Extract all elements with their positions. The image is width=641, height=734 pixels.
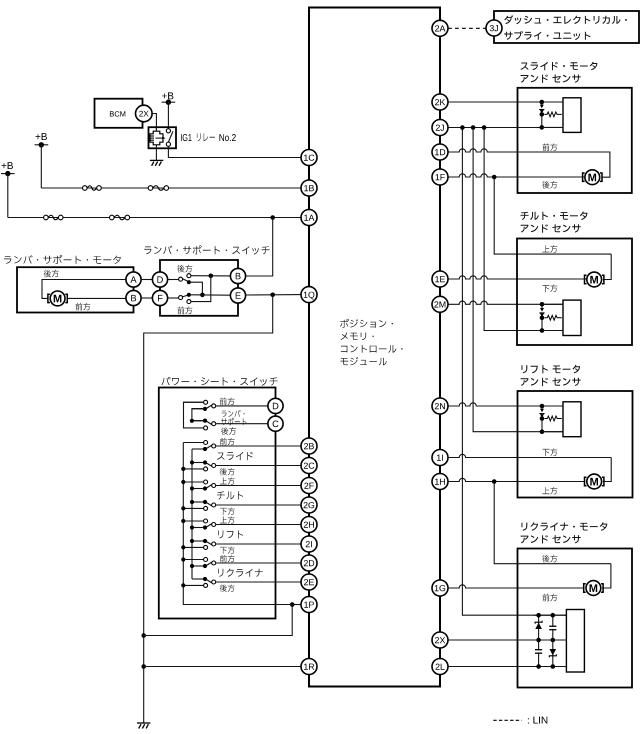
box lumbar support switch — [160, 260, 238, 316]
motor M3 tilt — [587, 272, 602, 287]
diode D1 zener up — [538, 615, 540, 666]
node junction B row — [209, 274, 214, 279]
wire relay coil to ground — [155, 148, 157, 160]
label 上方 — [220, 516, 235, 523]
wire 1D row to slide front — [448, 149, 610, 152]
label 下方 — [220, 547, 235, 554]
terminal D lumbar switch — [152, 272, 167, 287]
module pin 2X — [432, 632, 448, 648]
box power seat switch — [159, 388, 276, 619]
wire bus b5 1H to recliner rear — [494, 482, 611, 564]
wire D selected contact to E bus — [189, 282, 202, 295]
sensor rect recliner — [566, 610, 584, 673]
label module name — [340, 319, 393, 328]
ground main — [137, 722, 150, 724]
label front contact — [177, 307, 192, 315]
diode D2 zener down — [550, 649, 557, 655]
terminal E lumbar switch — [230, 288, 245, 303]
wire bus b1 2J to recliner sensor — [462, 128, 566, 616]
capacitor C2 — [552, 615, 554, 666]
fuse F1 on 1B row — [83, 186, 88, 191]
label group リフト — [218, 530, 243, 538]
wire B to F — [141, 297, 152, 299]
label lift motor and sensor title2 — [521, 378, 581, 386]
module pin 2J — [432, 120, 448, 136]
module pin 1D — [432, 144, 448, 160]
sensor R3 lift position — [541, 406, 543, 409]
label front zenpo B — [75, 303, 90, 311]
node junction ground bus 1R branch — [141, 664, 146, 669]
module pin 2M — [432, 296, 448, 312]
wire terminal B to motor — [68, 297, 126, 299]
node junction E row — [200, 293, 205, 298]
switch SW lumbar-up D — [183, 401, 203, 403]
ground relay — [150, 159, 163, 161]
node lumbar selected bus junction — [190, 419, 194, 423]
wire 2J row to slide sensor — [448, 127, 563, 129]
label tilt motor and sensor title1 — [520, 212, 587, 221]
label power seat switch title — [161, 377, 277, 386]
module pin 1H — [432, 474, 448, 490]
wire 2K row to slide sensor — [448, 101, 563, 103]
wire slide front to motor — [518, 152, 610, 177]
label recliner motor and sensor title2 — [521, 535, 581, 543]
wire bus b3 2J to tilt sensor — [484, 128, 563, 331]
wire 1G row to recliner front — [448, 585, 584, 588]
wire recliner sensor mid row — [518, 639, 567, 641]
wire bus b2 2J to lift sensor — [473, 128, 563, 432]
label lumbar support switch title — [144, 245, 269, 254]
wire 1B row with fuses — [41, 187, 301, 189]
wire E to pin 1Q — [246, 294, 301, 296]
box recliner motor and sensor — [518, 549, 633, 688]
module pin 2H — [301, 517, 317, 533]
terminal C power seat switch — [268, 416, 283, 431]
wire 1I row to lift down — [448, 454, 611, 457]
motor M1 lumbar — [50, 291, 65, 306]
module pin 1A — [301, 210, 317, 226]
wire +B1 to 1A row — [7, 174, 9, 218]
module pin 1I — [432, 450, 448, 466]
box BCM — [95, 99, 143, 128]
module pin 2L — [432, 659, 448, 675]
label IG1 relay No.2 — [181, 134, 192, 141]
switch SW-F lumbar — [168, 297, 179, 299]
node 1H b5 junction — [492, 479, 497, 484]
wire lumbar open-contacts bus — [184, 402, 204, 428]
switch SW チルト down row — [183, 507, 203, 509]
module pin 1Q — [301, 287, 317, 303]
label 前方 — [220, 555, 235, 563]
label recliner motor and sensor title1 — [521, 522, 607, 531]
node 1F b4 junction — [492, 175, 497, 180]
box lift motor and sensor — [518, 391, 633, 498]
label rear slide — [542, 181, 557, 189]
fuse F4 on 1A row — [110, 215, 115, 220]
box slide motor and sensor — [518, 88, 632, 193]
label dash electrical supply unit line1 — [504, 15, 627, 24]
wire 1Q junction to ground bus — [144, 295, 273, 723]
module pin 2K — [432, 94, 448, 110]
node junction at 1P — [290, 602, 295, 607]
module pin 2G — [301, 497, 317, 513]
motor M5 recliner — [586, 581, 601, 596]
box dash electrical supply unit — [494, 11, 639, 43]
switch SW-D lumbar — [168, 279, 179, 281]
wire 2X row to recliner sensor — [448, 639, 566, 641]
wire 2M row to tilt sensor — [448, 301, 563, 304]
label group リクライナ — [218, 569, 263, 577]
label dash electrical supply unit line2 — [504, 31, 590, 40]
module pin 1C — [301, 150, 317, 166]
sensor R2 tilt position — [541, 304, 543, 308]
switch SW リフト up row — [183, 520, 203, 522]
label down tilt — [542, 285, 557, 293]
switch SW リフト down row — [183, 546, 203, 548]
module pin 1B — [301, 180, 317, 196]
label lift motor and sensor title1 — [521, 365, 580, 374]
module pin 2I — [301, 536, 317, 552]
module pin 2B — [301, 438, 317, 454]
label slide motor and sensor title1 — [520, 62, 597, 71]
switch SW チルト up row — [183, 481, 203, 483]
sensor R1 slide position — [541, 102, 543, 105]
box lumbar support motor — [17, 267, 134, 312]
legend LIN dashed — [493, 719, 521, 721]
wire D contact row to B terminal — [191, 275, 231, 277]
module pin 2E — [301, 574, 317, 590]
label slide motor and sensor title2 — [521, 75, 581, 83]
label rear recliner — [542, 555, 557, 563]
wire 1E row to tilt down — [448, 276, 586, 279]
power +B node 1 — [2, 162, 13, 169]
wire recliner sensor top row — [534, 614, 567, 616]
switch SW リクライナ up row — [183, 559, 203, 561]
wire ground bus to 1P — [144, 605, 293, 636]
node 2J bus junctions — [460, 125, 465, 130]
wire bus b4 1F to tilt up — [494, 177, 611, 254]
wire LIN dashed 2A to 3J — [448, 27, 486, 29]
wire recliner rear to motor — [602, 564, 611, 588]
fuse F2 on 1B row — [148, 186, 153, 191]
label 下方 — [220, 508, 235, 515]
wire A to D — [141, 279, 152, 281]
label down lift — [542, 449, 557, 457]
node junction 1A row to lumbar switch B — [270, 215, 275, 220]
label 後方 — [220, 468, 235, 476]
wire junction down to front contact — [191, 276, 211, 302]
module pin 2C — [301, 458, 317, 474]
motor M2 slide — [585, 170, 600, 185]
module pin 1P — [301, 597, 317, 613]
switch SW lumbar-down C — [183, 427, 203, 429]
power +B node 2 — [36, 133, 47, 140]
module pin 2A — [432, 20, 448, 36]
label front slide — [542, 143, 557, 151]
wire 1A row with fuses — [8, 217, 301, 219]
IC module: position memory control module U1 — [309, 8, 440, 687]
wire 2N row to lift sensor — [448, 403, 563, 406]
switch SW リクライナ down row — [183, 584, 203, 586]
label lumbar support line2 — [221, 418, 246, 426]
label group チルト — [217, 491, 243, 499]
module pin 1R — [301, 659, 317, 675]
wire recliner sensor bottom row — [518, 666, 567, 668]
label front — [220, 398, 235, 406]
motor M4 lift — [587, 474, 602, 489]
wire terminal A to motor — [42, 280, 126, 299]
label group スライド — [217, 452, 253, 460]
label lumbar support motor title — [4, 255, 121, 264]
label 前方 — [220, 438, 235, 446]
terminal B lumbar motor — [126, 290, 141, 305]
wire +B2 to 1B row — [40, 145, 42, 188]
wire BCM 2X to relay coil — [151, 114, 156, 132]
label rear hougo A — [44, 270, 59, 278]
wire +B3 to relay contact — [167, 102, 169, 130]
wire common open-contact bus to 1P — [183, 443, 292, 605]
label rear — [221, 427, 236, 435]
module pin 1G — [432, 580, 448, 596]
switch SW スライド down row — [183, 468, 203, 470]
connector 2X on BCM — [136, 105, 153, 122]
terminal B lumbar switch — [230, 268, 245, 283]
capacitor C1 — [535, 649, 542, 651]
label front recliner — [542, 594, 557, 602]
terminal D power seat switch — [268, 398, 283, 413]
wire selected-contact bus — [191, 449, 193, 579]
node recliner sensor junctions — [536, 613, 541, 618]
wire tilt up to motor — [603, 254, 611, 279]
wire 1R row — [144, 666, 301, 668]
connector 3J — [486, 20, 502, 36]
node junction 1Q row — [270, 293, 275, 298]
wire relay contact to pin 1C — [168, 146, 301, 158]
label up lift — [542, 487, 557, 494]
module pin 2N — [432, 398, 448, 414]
module pin 2D — [301, 555, 317, 571]
terminal F lumbar switch — [152, 290, 167, 305]
label lumbar support line1 — [222, 410, 245, 417]
relay K1 IG1 relay No.2 — [149, 127, 177, 148]
wire 1H row to lift up — [448, 478, 585, 481]
wire F selected row to E terminal — [191, 294, 231, 296]
label tilt motor and sensor title2 — [521, 224, 581, 232]
label 後方 — [220, 584, 235, 592]
label rear contact — [177, 265, 192, 273]
wire lift down to motor — [603, 458, 611, 482]
label up tilt — [542, 245, 557, 252]
wire 1F row to slide rear — [448, 174, 584, 177]
module pin 1E — [432, 271, 448, 287]
node junction ground bus 1P branch — [141, 633, 146, 638]
box tilt motor and sensor — [517, 239, 632, 346]
wire 2L row to recliner sensor — [448, 666, 566, 668]
wire 1A junction down to switch B — [245, 218, 273, 277]
fuse F3 on 1A row — [44, 215, 49, 220]
module pin 2F — [301, 478, 317, 494]
power +B node 3 — [162, 92, 173, 99]
switch SW スライド up row — [183, 442, 203, 444]
label 上方 — [220, 477, 235, 484]
module pin 1F — [432, 169, 448, 185]
wire lumbar selected bus — [192, 409, 204, 421]
terminal A lumbar motor — [126, 272, 141, 287]
